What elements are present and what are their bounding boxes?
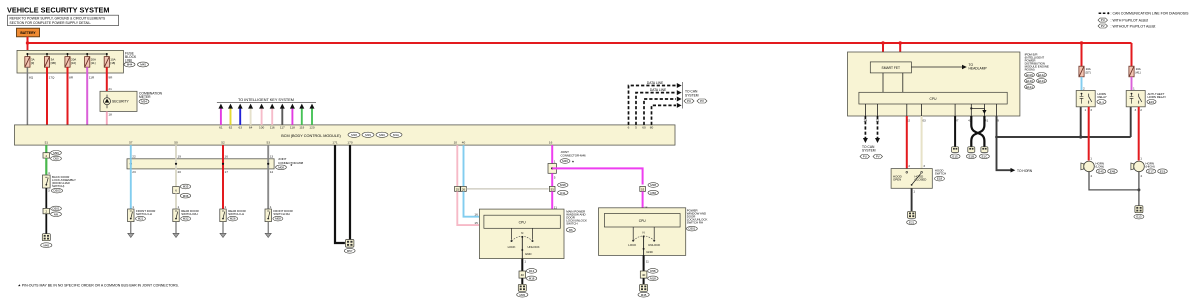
ground bolt M45 main module bbox=[517, 284, 528, 297]
svg-text:M34: M34 bbox=[141, 100, 147, 104]
svg-text:PV: PV bbox=[876, 155, 880, 159]
connector M19 oval bbox=[362, 132, 374, 137]
wire 42 black crossed bbox=[968, 116, 984, 147]
wire smart fet to cpu links bbox=[883, 73, 903, 92]
svg-text:GND: GND bbox=[525, 252, 531, 256]
text fuse block label bbox=[125, 52, 137, 63]
wire skyblue to module pin 16 bbox=[464, 191, 484, 216]
connector inline 26 bbox=[461, 186, 467, 191]
connector stub E15 bbox=[950, 147, 960, 159]
svg-text:E119: E119 bbox=[1026, 73, 1033, 77]
wire 52 red BCM to rear door switch LH bbox=[221, 140, 228, 209]
fuse horn relay 10A bbox=[1079, 66, 1091, 77]
svg-text:N: N bbox=[521, 231, 523, 235]
wire 9R red fuse5 to combination meter pin 21 bbox=[107, 67, 113, 91]
connector M45 oval bbox=[138, 62, 149, 67]
svg-text:22: 22 bbox=[132, 154, 136, 158]
connector inline 40 left module bbox=[519, 269, 537, 281]
text joint connector M08 bbox=[276, 157, 304, 169]
svg-text:D58: D58 bbox=[650, 269, 656, 273]
svg-text:RELAY: RELAY bbox=[1098, 95, 1107, 99]
svg-text:1: 1 bbox=[1085, 108, 1087, 112]
svg-text:11R: 11R bbox=[89, 76, 95, 80]
wire 120 green arrow to intelligent key bbox=[309, 104, 314, 130]
svg-text:8Q: 8Q bbox=[29, 76, 34, 80]
text to intelligent key system bbox=[217, 98, 316, 103]
wire horn high ground bbox=[1137, 172, 1142, 206]
svg-text:SWITCH LH: SWITCH LH bbox=[136, 212, 152, 216]
wire black back door to connector bbox=[46, 188, 50, 208]
ground arrow rear door switch LH bbox=[220, 222, 226, 238]
svg-text:1: 1 bbox=[178, 205, 180, 209]
connector M1A oval bbox=[390, 132, 402, 137]
wire 9 black ipdm to horn relays bbox=[997, 116, 1033, 173]
wire CAN 24 dashed to can system bbox=[863, 116, 868, 143]
svg-text:BCM (BODY CONTROL MODULE): BCM (BODY CONTROL MODULE) bbox=[281, 134, 341, 138]
ground arrow rear door switch RH bbox=[173, 222, 179, 238]
svg-text:16: 16 bbox=[225, 154, 229, 158]
svg-text:SYSTEM: SYSTEM bbox=[685, 93, 699, 97]
svg-text:171: 171 bbox=[332, 140, 337, 144]
power window and door lock unlock switch RH module bbox=[599, 208, 686, 256]
connector inline 40 RH module bbox=[640, 269, 658, 281]
svg-text:[41]: [41] bbox=[1136, 70, 1141, 74]
svg-text:M45: M45 bbox=[140, 63, 146, 67]
connector M34 oval bbox=[139, 99, 149, 104]
svg-text:: WITH ProPILOT Assist: : WITH ProPILOT Assist bbox=[1111, 18, 1148, 22]
svg-text:40: 40 bbox=[521, 273, 525, 277]
svg-text:53: 53 bbox=[266, 140, 270, 144]
front door switch LH bbox=[128, 209, 156, 222]
wire red to smart fet pin a bbox=[882, 43, 884, 62]
rear door switch LH bbox=[220, 209, 246, 222]
svg-text:M45: M45 bbox=[519, 293, 525, 297]
wire black to ground bolt RH module bbox=[643, 278, 645, 285]
svg-text:119: 119 bbox=[299, 126, 304, 130]
wire 171 black BCM ground bbox=[332, 140, 344, 243]
connector M18 oval bbox=[348, 132, 360, 137]
svg-text:11: 11 bbox=[646, 259, 649, 263]
svg-text:1: 1 bbox=[1133, 87, 1135, 91]
svg-text:3: 3 bbox=[1135, 108, 1137, 112]
wire pink meter pin 18 to BCM pin 35 bbox=[101, 111, 113, 129]
main power window and door lock unlock switch module bbox=[479, 209, 564, 259]
svg-text:4: 4 bbox=[48, 171, 50, 175]
svg-text:OPEN: OPEN bbox=[893, 178, 901, 182]
svg-text:E1B: E1B bbox=[969, 154, 975, 158]
svg-text:5: 5 bbox=[554, 176, 556, 180]
connector stub E1C bbox=[979, 147, 989, 159]
svg-text:52: 52 bbox=[221, 140, 225, 144]
svg-text:M20: M20 bbox=[379, 133, 385, 137]
combination meter bbox=[100, 91, 137, 111]
svg-text:17: 17 bbox=[225, 170, 229, 174]
svg-text:★: ★ bbox=[572, 160, 575, 164]
svg-text:63: 63 bbox=[238, 126, 242, 130]
smart fet box bbox=[870, 62, 911, 73]
connector inline 53 right bbox=[640, 183, 659, 195]
svg-text:SECURITY: SECURITY bbox=[112, 99, 129, 103]
svg-text:[11]: [11] bbox=[91, 61, 96, 65]
svg-text:: WITHOUT ProPILOT Assist: : WITHOUT ProPILOT Assist bbox=[1111, 24, 1156, 28]
connector inline 25 bbox=[455, 186, 461, 191]
ground arrow front door switch LH bbox=[128, 222, 134, 238]
wire 8R red fuse3 to BCM pin 175 bbox=[59, 67, 73, 129]
connector E17 oval bbox=[1146, 169, 1156, 174]
svg-text:26: 26 bbox=[462, 187, 466, 191]
wire 170 black BCM ground bbox=[347, 140, 352, 239]
wire 40 skyblue BCM to main power window switch bbox=[462, 140, 466, 186]
ground bolt M57 bbox=[344, 240, 355, 254]
wire 10 pink BCM to main power window switch bbox=[454, 140, 458, 186]
svg-text:BATTERY: BATTERY bbox=[20, 31, 36, 35]
wire 51 green BCM to back door bbox=[45, 140, 49, 152]
connector E45 oval bbox=[1096, 169, 1106, 174]
connector PV hex bottom bbox=[873, 155, 883, 159]
fuse F2 10A bbox=[44, 57, 56, 68]
text IPDM label bbox=[1025, 52, 1049, 71]
text to can system bottom bbox=[862, 145, 876, 153]
svg-text:1: 1 bbox=[225, 205, 227, 209]
svg-text:M21: M21 bbox=[138, 217, 144, 221]
svg-text:1: 1 bbox=[524, 259, 526, 263]
svg-text:23: 23 bbox=[132, 170, 136, 174]
svg-text:2: 2 bbox=[1141, 174, 1143, 178]
wire black to ground M45 bbox=[45, 214, 47, 234]
text horn relay label bbox=[1097, 92, 1107, 104]
svg-text:M32: M32 bbox=[183, 217, 189, 221]
svg-text:E45: E45 bbox=[1098, 169, 1104, 173]
wire 47 black ipdm stub bbox=[955, 116, 959, 147]
svg-text:CPU: CPU bbox=[519, 221, 527, 225]
svg-text:M08: M08 bbox=[275, 217, 281, 221]
svg-text:100: 100 bbox=[259, 126, 264, 130]
wire 61 magenta arrow to intelligent key bbox=[218, 104, 223, 130]
wire 17Q red fuse2 to BCM pin 76 bbox=[41, 67, 55, 129]
svg-text:M18: M18 bbox=[351, 133, 357, 137]
svg-text:D6: D6 bbox=[569, 228, 573, 232]
svg-text:(HIGH): (HIGH) bbox=[1146, 164, 1155, 168]
svg-text:M45: M45 bbox=[641, 293, 647, 297]
switch lock unlock main module bbox=[508, 228, 540, 258]
ground bolt hood switch bbox=[907, 211, 917, 224]
svg-text:TO INTELLIGENT KEY SYSTEM: TO INTELLIGENT KEY SYSTEM bbox=[238, 98, 294, 102]
svg-text:1: 1 bbox=[913, 190, 915, 194]
battery bbox=[17, 28, 40, 37]
wire 64 beige arrow to intelligent key bbox=[248, 104, 253, 130]
svg-text:E17: E17 bbox=[1148, 169, 1154, 173]
svg-text:[18]: [18] bbox=[110, 61, 115, 65]
fuse F1 10A bbox=[25, 57, 35, 68]
svg-text:116: 116 bbox=[270, 126, 275, 130]
node red feed junction fuse horn bbox=[1080, 41, 1083, 44]
wire CAN 21 dashed to can system bbox=[875, 116, 880, 143]
svg-text:16: 16 bbox=[474, 213, 478, 217]
svg-text:62: 62 bbox=[229, 126, 233, 130]
wire magenta branch right from M46 bbox=[552, 168, 642, 184]
connector E48 oval bbox=[1108, 169, 1118, 174]
wire magenta M46 to inline 53 left bbox=[552, 173, 556, 186]
wire red anti-theft relay to horn high bbox=[1135, 107, 1143, 161]
wire 52 red ipdm to hood switch bbox=[907, 116, 911, 169]
svg-text:SWITCH RH: SWITCH RH bbox=[273, 212, 289, 216]
svg-text:ROOM): ROOM) bbox=[1025, 67, 1035, 71]
svg-text:53: 53 bbox=[551, 187, 555, 191]
svg-text:2: 2 bbox=[1091, 174, 1093, 178]
svg-text:PU: PU bbox=[1101, 18, 1105, 22]
svg-text:1: 1 bbox=[554, 160, 556, 164]
svg-text:60: 60 bbox=[642, 126, 646, 130]
horn high bbox=[1131, 161, 1155, 172]
connector PV hex oval bbox=[697, 99, 707, 103]
svg-text:E122: E122 bbox=[1038, 73, 1045, 77]
svg-text:M46: M46 bbox=[562, 159, 568, 163]
svg-text:E13: E13 bbox=[1136, 215, 1142, 219]
svg-text:HEADLAMP: HEADLAMP bbox=[969, 67, 988, 71]
svg-text:GND: GND bbox=[646, 250, 652, 254]
text power window switch RH label bbox=[687, 208, 708, 231]
svg-text:SWITCH RH: SWITCH RH bbox=[181, 212, 197, 216]
svg-text:M38: M38 bbox=[560, 183, 566, 187]
svg-text:E1C: E1C bbox=[982, 154, 988, 158]
node can bus brace bbox=[682, 82, 684, 109]
text main power window switch label bbox=[566, 210, 587, 233]
wire battery to fuse bus bbox=[27, 43, 29, 54]
wire black main module gnd down bbox=[522, 259, 526, 271]
svg-text:117: 117 bbox=[280, 126, 285, 130]
svg-text:M26: M26 bbox=[230, 217, 236, 221]
node red feed junction smart fet 2 bbox=[899, 41, 902, 44]
svg-text:M9: M9 bbox=[54, 212, 58, 216]
wire red horn relay to horn low bbox=[1085, 107, 1093, 161]
text anti-theft horn relay label bbox=[1147, 92, 1166, 104]
wire 53 gray BCM to front door switch RH bbox=[266, 140, 273, 209]
wire 41 black crossed bbox=[971, 116, 988, 147]
fuse block J/B bbox=[17, 50, 123, 73]
node battery junction bbox=[26, 41, 29, 44]
wire white connector to rear door switch RH bbox=[176, 193, 180, 209]
connector E119 oval bbox=[1025, 73, 1035, 78]
wire black RH module gnd down bbox=[644, 255, 650, 271]
svg-text:1: 1 bbox=[132, 205, 134, 209]
text combination meter label bbox=[139, 92, 163, 100]
connector PU hex oval bbox=[684, 99, 694, 103]
svg-text:15: 15 bbox=[474, 221, 478, 225]
svg-text:M18: M18 bbox=[529, 277, 535, 281]
text back door lock assembly bbox=[51, 175, 76, 193]
wire cpu internal drops bbox=[865, 104, 996, 116]
fuse F4 20A bbox=[85, 57, 96, 68]
svg-text:D11: D11 bbox=[560, 191, 565, 195]
connector inline M96 pin 2 bbox=[43, 151, 61, 161]
svg-text:1: 1 bbox=[270, 205, 272, 209]
svg-text:METER: METER bbox=[139, 95, 151, 99]
ground arrow front door switch RH bbox=[265, 222, 271, 238]
svg-text:PV: PV bbox=[1101, 24, 1105, 28]
svg-text:DATA LINE: DATA LINE bbox=[647, 81, 664, 85]
back door lock assembly switch bbox=[43, 175, 51, 188]
svg-text:SECTION FOR COMPLETE POWER SUP: SECTION FOR COMPLETE POWER SUPPLY DETAIL… bbox=[10, 21, 92, 25]
joint connector M08 bar bbox=[127, 159, 274, 169]
svg-text:D301: D301 bbox=[688, 227, 695, 231]
wire 63 blue arrow to intelligent key bbox=[238, 104, 243, 130]
fuse F5 10A bbox=[104, 57, 115, 68]
wire CAN pin 6 dashed data line bbox=[628, 81, 682, 130]
svg-text:LOCK: LOCK bbox=[508, 245, 516, 249]
connector inline D501 pin 2 bbox=[43, 206, 61, 216]
svg-text:3: 3 bbox=[923, 164, 925, 168]
svg-text:CLOSED: CLOSED bbox=[915, 178, 927, 182]
svg-text:13: 13 bbox=[270, 154, 274, 158]
svg-text:1: 1 bbox=[1090, 156, 1092, 160]
svg-text:21: 21 bbox=[108, 87, 112, 91]
svg-text:[3B]: [3B] bbox=[51, 61, 56, 65]
svg-text:2: 2 bbox=[908, 164, 910, 168]
connector inline pin 6 on wire 50 bbox=[173, 184, 191, 198]
ground bolt M45 RH module bbox=[638, 284, 649, 297]
text hood switch label bbox=[935, 169, 947, 181]
fuse anti-theft 10A bbox=[1129, 66, 1141, 77]
svg-text:SMART FET: SMART FET bbox=[882, 66, 901, 70]
wire green connector to back door switch bbox=[46, 158, 50, 175]
svg-text:118: 118 bbox=[290, 126, 295, 130]
svg-text:E48: E48 bbox=[1110, 169, 1116, 173]
svg-text:16: 16 bbox=[549, 140, 553, 144]
svg-text:11: 11 bbox=[554, 205, 557, 209]
svg-text:170: 170 bbox=[347, 140, 352, 144]
wire 116 pink arrow to intelligent key bbox=[270, 104, 275, 130]
svg-text:E19: E19 bbox=[1160, 169, 1166, 173]
svg-text:M96: M96 bbox=[53, 151, 59, 155]
text to can system left bbox=[685, 90, 699, 98]
svg-text:: CAN COMMUNICATION LINE FOR D: : CAN COMMUNICATION LINE FOR DIAGNOSIS bbox=[1111, 12, 1190, 16]
svg-text:SWITCH: SWITCH bbox=[935, 172, 946, 176]
svg-text:E123: E123 bbox=[1038, 79, 1045, 83]
horn low bbox=[1081, 161, 1104, 172]
svg-text:20: 20 bbox=[178, 170, 182, 174]
svg-text:CONNECTOR-M46: CONNECTOR-M46 bbox=[561, 154, 587, 158]
wire black hood switch to ground bbox=[912, 188, 916, 211]
svg-text:E18: E18 bbox=[937, 177, 943, 181]
rear door switch RH bbox=[173, 209, 199, 222]
svg-text:61: 61 bbox=[219, 126, 223, 130]
wire battery feed main red line bbox=[28, 37, 1132, 43]
wire 100 pink arrow to intelligent key bbox=[259, 104, 264, 130]
svg-text:D50: D50 bbox=[53, 157, 59, 161]
svg-text:DATA LINE: DATA LINE bbox=[650, 88, 667, 92]
svg-text:★ PIN-OUTS MAY BE IN NO SPECIF: ★ PIN-OUTS MAY BE IN NO SPECIFIC ORDER O… bbox=[18, 284, 179, 288]
svg-text:M08: M08 bbox=[278, 165, 284, 169]
svg-text:D13: D13 bbox=[529, 269, 535, 273]
svg-text:D58: D58 bbox=[651, 191, 657, 195]
front door switch RH bbox=[265, 209, 293, 222]
wire 8Q gray fuse1 to BCM pin 141 bbox=[19, 67, 34, 129]
text joint connector M46 bbox=[560, 150, 586, 163]
svg-text:40: 40 bbox=[642, 273, 646, 277]
svg-text:25: 25 bbox=[456, 187, 460, 191]
svg-text:2: 2 bbox=[1083, 87, 1085, 91]
connector stub E1B bbox=[966, 147, 976, 159]
svg-text:M18: M18 bbox=[650, 277, 656, 281]
ground bolt E13 horns bbox=[1134, 206, 1144, 219]
svg-text:M45: M45 bbox=[43, 243, 49, 247]
connector inline 53 left bbox=[549, 183, 568, 195]
svg-text:E121: E121 bbox=[1026, 85, 1033, 89]
svg-text:80: 80 bbox=[650, 126, 654, 130]
svg-text:64: 64 bbox=[249, 126, 253, 130]
connector PU hex bottom bbox=[860, 155, 870, 159]
svg-text:E15: E15 bbox=[953, 154, 959, 158]
joint connector M46 bbox=[548, 164, 556, 174]
wire magenta 53 to RH module pin 16 bbox=[643, 191, 648, 213]
wire CAN pin 80 dashed bbox=[650, 103, 682, 130]
svg-text:M44: M44 bbox=[127, 63, 133, 67]
connector M44 oval bbox=[124, 62, 135, 67]
connector E120 oval bbox=[1025, 79, 1035, 84]
svg-text:E120: E120 bbox=[1026, 79, 1033, 83]
svg-text:N: N bbox=[643, 231, 645, 235]
svg-text:14: 14 bbox=[270, 170, 274, 174]
wire red to smart fet pin b bbox=[899, 43, 901, 62]
svg-text:CPU: CPU bbox=[639, 219, 647, 223]
svg-text:M19: M19 bbox=[365, 133, 371, 137]
svg-text:[10]: [10] bbox=[71, 61, 76, 65]
wire red to anti-theft fuse bbox=[1131, 43, 1133, 66]
svg-text:[57]: [57] bbox=[1086, 70, 1091, 74]
svg-text:M38: M38 bbox=[650, 183, 656, 187]
horn relay box bbox=[1076, 91, 1095, 107]
svg-text:★: ★ bbox=[290, 163, 293, 167]
wire black to ground bolt left module bbox=[521, 278, 523, 285]
wire CAN pin 60 dashed bbox=[642, 97, 681, 130]
svg-text:PU: PU bbox=[687, 99, 691, 103]
svg-text:D501: D501 bbox=[53, 207, 60, 211]
svg-text:9: 9 bbox=[997, 119, 999, 123]
wire 11R violet fuse4 to BCM pin 247 bbox=[79, 67, 95, 129]
wire violet fuse to anti-theft relay bbox=[1132, 77, 1136, 91]
wire 118 magenta arrow to intelligent key bbox=[290, 104, 295, 130]
node red feed junction smart fet 1 bbox=[881, 41, 884, 44]
svg-text:(LOW): (LOW) bbox=[1096, 164, 1105, 168]
svg-text:E15: E15 bbox=[1149, 100, 1155, 104]
svg-text:SWITCH RH: SWITCH RH bbox=[687, 220, 703, 224]
svg-text:E21: E21 bbox=[909, 220, 915, 224]
IPDM E/R box bbox=[848, 52, 1020, 116]
fuse F3 20A bbox=[65, 57, 76, 68]
node fuse bus junctions bbox=[26, 53, 107, 55]
svg-text:TO HORN: TO HORN bbox=[1017, 169, 1033, 173]
connector E19 oval bbox=[1158, 169, 1168, 174]
connector E123 oval bbox=[1037, 79, 1047, 84]
ground bolt M45 left bbox=[41, 234, 52, 248]
wire 117 gray arrow to intelligent key bbox=[280, 104, 285, 130]
svg-text:5: 5 bbox=[635, 126, 637, 130]
wire CAN pin 5 dashed data line bbox=[635, 88, 681, 130]
connector E121 oval bbox=[1025, 85, 1035, 90]
wire pink to module pin 15 bbox=[457, 191, 484, 225]
svg-text:3: 3 bbox=[1090, 108, 1092, 112]
svg-text:SWITCH): SWITCH) bbox=[52, 184, 64, 188]
wire red to horn fuse bbox=[1081, 43, 1083, 66]
svg-text:D503: D503 bbox=[54, 189, 61, 193]
svg-text:UNLOCK: UNLOCK bbox=[527, 245, 539, 249]
svg-text:3: 3 bbox=[48, 189, 50, 193]
svg-text:SWITCH LH: SWITCH LH bbox=[228, 212, 244, 216]
wire horn low ground bbox=[1089, 172, 1139, 190]
svg-text:VEHICLE SECURITY SYSTEM: VEHICLE SECURITY SYSTEM bbox=[7, 6, 109, 15]
wire shield gray link 26 to 53 bbox=[466, 188, 548, 190]
switch lock unlock RH module bbox=[628, 227, 660, 255]
